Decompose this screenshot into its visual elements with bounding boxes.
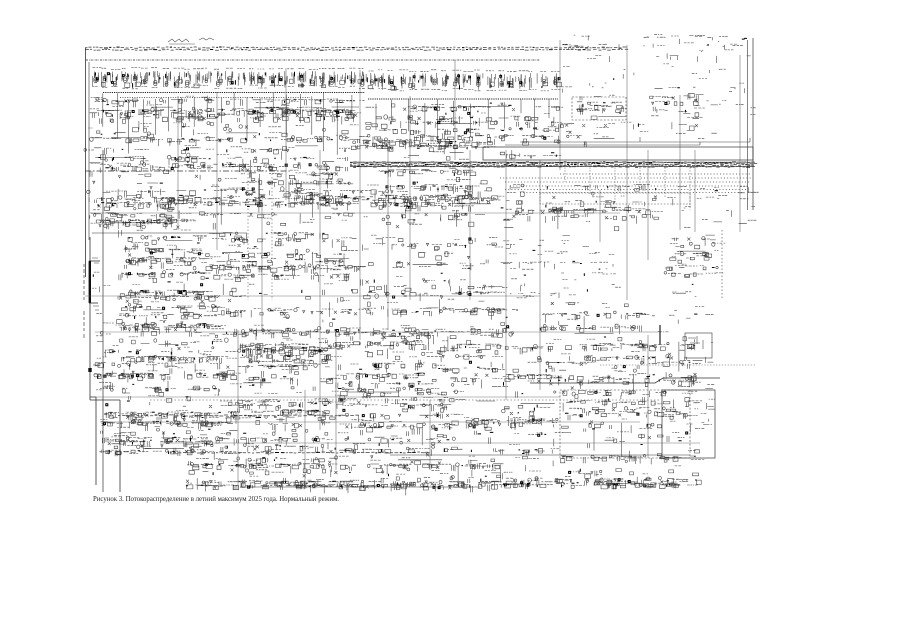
transit box labels — [500, 150, 561, 160]
dash-dot bus mid-left — [85, 170, 290, 172]
dense cluster 32 — [225, 399, 338, 468]
left margin labels — [92, 272, 114, 323]
wire y443 — [160, 442, 700, 444]
vertical feeder x740 — [739, 55, 741, 232]
wire x178 — [177, 96, 179, 230]
dotted bus right 2 — [505, 181, 750, 183]
cluster 27 — [432, 336, 508, 388]
wire x262 — [261, 200, 263, 330]
dotted bus right 5 — [520, 192, 744, 194]
cluster 29 right block — [546, 334, 703, 404]
harness step wires above rail — [505, 137, 750, 145]
sparse labels right — [633, 97, 755, 139]
cluster 35 — [561, 390, 705, 464]
dotted bus right 4 — [505, 189, 746, 191]
wire y422 — [100, 421, 640, 423]
cluster 19 — [664, 235, 725, 277]
330kV bus textured rail — [350, 162, 757, 167]
wire y455 — [390, 454, 690, 456]
small block 685 — [685, 333, 712, 358]
cluster 20 — [116, 295, 226, 337]
330kV bus rail top — [350, 161, 755, 163]
module rail wire B — [368, 98, 558, 100]
vertical feeder x248 dotted — [247, 170, 249, 300]
rotated 500kV label — [83, 264, 85, 338]
vertical feeder x410 — [409, 96, 411, 300]
330kV bus rail bottom — [352, 165, 755, 167]
tap labels — [92, 258, 99, 374]
500kV busbar bracket — [89, 261, 91, 303]
left frame wire — [85, 48, 87, 277]
dotted transit box lower — [540, 193, 690, 204]
dense block 15 — [124, 236, 213, 269]
vertical feeder x680 — [679, 95, 681, 230]
wire y487 — [240, 486, 480, 488]
dotted wire y365 — [600, 364, 755, 366]
feeder cluster under row A — [88, 96, 364, 146]
left trunk wire x90 — [89, 237, 91, 400]
dotted substation outline — [572, 97, 626, 120]
vertical dotted x722 — [721, 230, 723, 300]
bottom row right — [501, 455, 705, 489]
module rail wire A2 — [120, 97, 310, 99]
left trunk wire — [102, 150, 104, 492]
wire x648a — [647, 150, 649, 260]
rail wire y233 — [92, 232, 247, 234]
dense block 15b — [119, 266, 213, 300]
annotation note — [168, 38, 214, 44]
right frame wire outer — [752, 38, 754, 210]
wire x286 — [285, 68, 287, 200]
bottom trunk x305 — [304, 390, 306, 487]
cluster 28 — [502, 344, 551, 426]
transformer module row B — [368, 70, 562, 91]
vertical feeder x560 — [559, 40, 561, 170]
top kV-level label row — [85, 47, 628, 50]
left inner wire — [88, 62, 90, 240]
sparse 18 — [501, 236, 621, 297]
wire x695 — [694, 150, 696, 232]
110kV bus wire — [86, 59, 540, 61]
wire x648b — [647, 335, 649, 458]
small cluster 18b — [510, 273, 577, 298]
wire x238 — [237, 330, 239, 490]
330kV transit box outline — [483, 147, 753, 160]
vertical feeder x540 — [539, 160, 541, 390]
cluster 22 — [541, 302, 649, 334]
wire x506 — [505, 150, 507, 400]
vertical feeder x470 — [469, 150, 471, 300]
label row y452 — [170, 452, 429, 453]
feeder wire y383 — [530, 378, 720, 383]
dotted bus right 3 — [510, 185, 748, 187]
vertical feeder x455 — [454, 60, 456, 160]
wire x388 — [387, 150, 389, 330]
transformer module row A — [92, 68, 366, 89]
dense cluster 31 — [99, 392, 233, 460]
wire y213 — [90, 212, 620, 214]
dotted drop wires below rail — [565, 168, 690, 211]
cluster 33 — [335, 390, 466, 459]
cluster 24 — [94, 331, 242, 395]
sparse right mid — [668, 186, 759, 227]
dotted block outline right — [560, 390, 690, 458]
sparse 23 — [652, 292, 714, 332]
mid module cluster — [351, 133, 495, 160]
dense cluster 25 — [238, 330, 342, 394]
substation box top-right 2 — [650, 94, 705, 131]
bottom trunk x430 — [429, 400, 431, 470]
substation cluster 12b — [241, 170, 353, 209]
substation cluster right mid — [503, 184, 663, 231]
wire x336 — [335, 330, 337, 470]
dense cluster 26 — [333, 332, 441, 396]
vertical feeder x627 — [626, 45, 628, 300]
wire y296 — [85, 295, 540, 297]
dotted bus right 1 — [500, 177, 752, 179]
vertical feeder x360 — [359, 70, 361, 340]
wire x600 — [599, 190, 601, 242]
cluster 21 — [222, 294, 527, 344]
left jog wire — [90, 397, 120, 492]
distribution cluster row2 base — [87, 175, 505, 229]
label row y415 — [118, 415, 359, 416]
bottom dense row left — [186, 458, 505, 495]
substation loop outline — [662, 390, 715, 458]
vertical feeder x272 dotted — [271, 170, 273, 300]
sparse 30 — [701, 343, 716, 425]
substation cluster 12a — [98, 201, 198, 238]
cluster 16 — [206, 232, 366, 303]
busbar tap tick — [88, 368, 91, 372]
cluster 17 — [361, 235, 505, 301]
caption text — [93, 496, 339, 503]
OHL name labels corner — [644, 34, 720, 44]
feeder drop wires — [103, 92, 549, 155]
vertical feeder x217 — [216, 92, 218, 250]
mid-left cluster — [84, 145, 350, 179]
line label annotations top-right — [562, 35, 751, 93]
vertical feeder x320 — [319, 150, 321, 430]
feeder cluster under row B — [366, 103, 564, 146]
substation cluster 12c — [376, 169, 480, 212]
module rail wire A — [103, 92, 365, 94]
wire y397 — [90, 396, 560, 398]
right frame wire inner — [747, 40, 749, 210]
stub bus x660 — [659, 325, 661, 345]
dotted wire y400 — [150, 399, 660, 401]
wire y332 — [95, 331, 660, 333]
substation box top-right — [576, 95, 631, 122]
substation labels mid-right — [557, 124, 615, 147]
dotted bus right 0 — [560, 173, 752, 175]
cluster 34 — [464, 401, 563, 458]
